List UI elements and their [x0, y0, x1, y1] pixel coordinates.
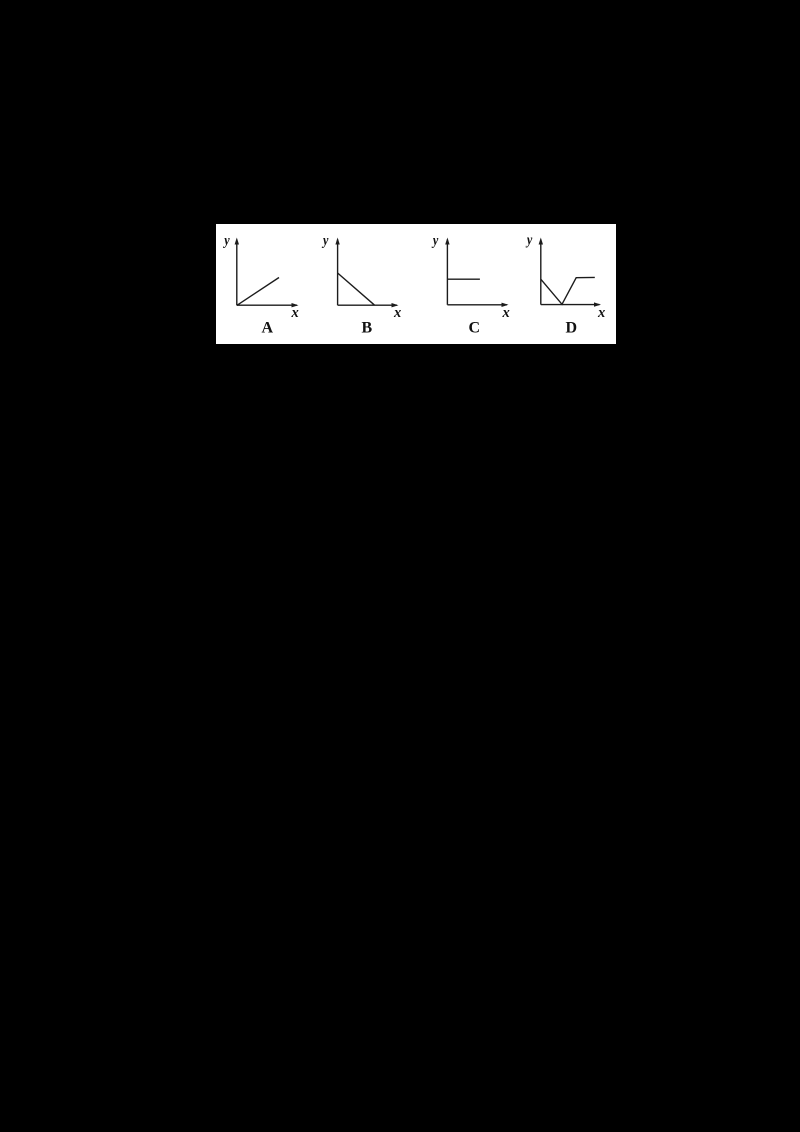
svg-text:y: y	[431, 232, 438, 248]
svg-text:x: x	[597, 305, 605, 321]
svg-text:x: x	[291, 305, 299, 321]
svg-text:x: x	[502, 305, 510, 321]
svg-text:y: y	[222, 232, 229, 248]
svg-text:D: D	[566, 320, 578, 337]
svg-text:y: y	[321, 232, 328, 248]
svg-text:x: x	[393, 305, 401, 321]
svg-text:A: A	[262, 320, 274, 337]
svg-text:C: C	[469, 320, 481, 337]
svg-text:y: y	[525, 232, 532, 248]
svg-text:B: B	[362, 320, 373, 337]
